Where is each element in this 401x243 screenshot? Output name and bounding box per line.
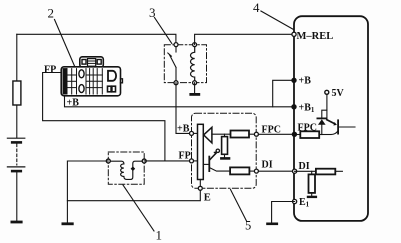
block 5 leader	[231, 190, 247, 222]
relay 1 leader	[123, 185, 154, 231]
wire relay1 to ground	[67, 161, 108, 223]
relay 3 box	[164, 45, 206, 83]
ECU DI vertical resistor	[311, 171, 313, 174]
wire left rail battery to top bus	[16, 34, 18, 138]
ECU terminal +B1	[292, 105, 296, 109]
ECU FPC resistor	[294, 134, 300, 136]
svg-text:3: 3	[149, 5, 156, 20]
relay 3 switch	[168, 45, 176, 83]
relay 1 coil	[108, 161, 144, 179]
svg-text:FP: FP	[44, 64, 56, 75]
block 5 DI resistor	[230, 167, 249, 174]
svg-text:5: 5	[245, 218, 251, 232]
svg-text:4: 4	[253, 0, 260, 15]
wire E to ground rail	[67, 190, 200, 200]
block 5 terminals	[190, 131, 194, 135]
block 5 FPC line + resistor	[212, 133, 231, 135]
connector 2 D slot	[108, 71, 116, 81]
svg-text:5V: 5V	[332, 88, 345, 99]
svg-text:+B: +B	[67, 97, 80, 108]
svg-text:FPC: FPC	[298, 123, 317, 134]
ECU terminal DI	[293, 169, 297, 173]
ECU leader 4	[261, 11, 294, 30]
battery B1	[7, 138, 24, 221]
connector 2 BB slots	[108, 86, 112, 92]
svg-text:FP: FP	[179, 150, 191, 161]
wire FPC block5 to ECU	[258, 133, 294, 135]
svg-text:2: 2	[48, 6, 55, 21]
ground left	[63, 222, 72, 225]
relay 3 leader	[155, 18, 172, 44]
ECU terminal +B	[292, 78, 296, 82]
wire top bus	[17, 34, 176, 44]
connector 2 nub	[121, 79, 123, 83]
block 5 transistor Q1	[203, 163, 209, 165]
svg-text:E: E	[204, 192, 211, 203]
svg-text:+B: +B	[177, 123, 190, 134]
block 5 vertical resistor	[224, 134, 226, 136]
connector 2 body	[61, 57, 120, 96]
ground E1	[268, 223, 277, 226]
ECU terminal E1	[293, 199, 297, 203]
relay 3 nodes	[174, 43, 178, 47]
wire relay1 to block5 FP	[144, 160, 189, 162]
ECU terminal M-REL	[292, 32, 296, 36]
fuse F1	[13, 81, 21, 105]
svg-text:+B: +B	[299, 76, 312, 87]
connector 2 tab details	[82, 60, 86, 65]
ground battery	[12, 221, 21, 224]
relay 1 diamond junction	[131, 166, 136, 171]
svg-text:DI: DI	[299, 161, 310, 172]
wire switch to block5 +B	[176, 83, 190, 134]
ECU diode D1	[321, 124, 323, 134]
svg-text:1: 1	[156, 228, 163, 243]
ECU box 4	[294, 16, 368, 221]
block 5 triangle	[204, 127, 212, 143]
ECU 5V node	[325, 90, 329, 94]
block 5 box	[192, 113, 257, 188]
ECU terminal FPC	[292, 132, 296, 136]
wire DI block5 to ECU	[258, 170, 294, 172]
ground relay3 coil	[194, 83, 196, 94]
wire E1 to ground	[272, 202, 295, 224]
wire FP from connector	[43, 73, 165, 161]
ECU transistor Q2	[327, 120, 334, 124]
connector 2 leader	[55, 20, 75, 67]
relay 3 coil	[191, 45, 195, 83]
wire +B bus connector to ECU	[65, 96, 295, 107]
block 5 internal bus bar	[192, 132, 198, 134]
wire coil to M-REL	[195, 34, 292, 44]
wire +B branch up to ECU +B	[273, 80, 293, 107]
svg-text:DI: DI	[262, 160, 273, 171]
svg-text:M–REL: M–REL	[297, 31, 334, 42]
relay 1 nodes	[106, 159, 110, 163]
ECU DI network	[295, 170, 316, 172]
svg-text:FPC: FPC	[262, 125, 281, 136]
relay 1 box	[108, 152, 144, 184]
connector 2 inner grid	[63, 69, 67, 94]
